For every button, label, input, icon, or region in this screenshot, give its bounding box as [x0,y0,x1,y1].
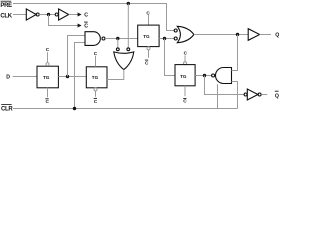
wire node M1 up to NAND U5 upper input [68,36,86,77]
wire CLR net up to NAND U5 lower input (crosses D wire, no dot) [75,43,86,109]
transmission gate TG2 [86,67,107,88]
bubble TG3 bottom control [147,47,150,50]
wire node Q down to U6 top input [232,35,238,71]
label C-bar (TG3 bottom control) [145,60,149,65]
label C-bar [84,22,88,30]
svg-text:TG: TG [143,34,150,39]
wire U7 output to Q label [260,34,271,36]
wire TG4 top control stub [184,55,186,61]
wire node S1 down to TG4 input [165,39,176,76]
wire U5 output to TG3 (node M2) [105,38,138,40]
bubble TG1 top control [46,63,49,66]
label C-bar (TG1 bottom control) [45,99,49,104]
svg-text:Q: Q [275,93,279,99]
wire TG2 bottom control stub [95,91,97,97]
wire U6 bottom input to CLR rail (crosses slave wire, no dot) [232,82,238,109]
svg-text:C: C [94,51,98,56]
wire TG4 bottom control stub [184,86,186,96]
inverter U2 (C-bar -> C), input bubble [55,9,68,20]
wire U2 output to C arrow [69,14,78,16]
label C-bar (TG2 bottom control) [94,98,98,103]
wire PRE rail down to U3 right input bubble [127,4,129,48]
junction node Q [236,33,239,36]
buffer U7 (Q output) [248,29,259,41]
OR gate U3 (vertical, preset gate, inputs bubbled) [114,48,134,70]
wire node CLKbar down to C-bar arrow [49,15,79,26]
NAND gate U6 (slave feedback, points left) [212,68,232,84]
wire TG2 top control stub [95,56,97,67]
svg-text:CLR: CLR [1,106,13,112]
wire PRE net: top rail to upper input of OR gate U4 [13,4,174,31]
label Qbar output [275,91,279,99]
svg-text:C: C [84,13,88,19]
inverter U8 (Qbar output, double bubble) [244,89,261,100]
svg-text:PRE: PRE [0,3,12,9]
svg-text:TG: TG [43,75,50,80]
wire node M2 down to OR-v U3 left input bubble [117,39,119,48]
net CLR input label [1,104,13,112]
wire CLR rail [13,108,238,110]
wire TG1 output to TG2 (master node M1) [58,76,86,78]
svg-text:Q: Q [275,32,279,38]
svg-text:TG: TG [92,75,99,80]
wire TG4 output to NAND U6 output bubble (node S2) [195,75,212,77]
wire TG1 top control stub [47,52,49,62]
wire TG3 output to OR U4 lower input (node S1) [159,38,174,40]
junction node M1 [66,75,69,78]
bubble TG2 bottom control [94,88,97,91]
transmission gate TG4 [175,65,195,86]
wire TG1 bottom control stub [47,88,49,97]
svg-text:C: C [183,99,187,104]
wire U1 output to U2 [39,14,55,16]
wire node S2 down/right to Qbar inverter U8 [205,76,245,95]
svg-text:C: C [46,47,50,52]
arrow C-bar [78,24,82,28]
OR gate U4 (horizontal, inputs bubbled) [174,26,194,42]
net PRE input label [0,1,12,9]
wire TG3 bottom control stub [148,50,150,58]
transmission gate TG3 [138,25,159,46]
wire CLR rail up into U6 body bottom (crosses slave wire, no dot) [217,84,219,108]
junction node M2 [116,37,119,40]
svg-text:CLK: CLK [0,13,12,19]
wire U3 output down/left to TG2 right side [107,70,124,80]
NAND gate U5 (master) [85,32,105,46]
svg-text:C: C [94,99,98,104]
transmission gate TG1 [37,66,58,88]
junction CLR to U5 [73,107,76,110]
wire U8 output to Qbar label [261,94,267,96]
wire D to TG1 [13,76,37,78]
svg-text:C: C [84,24,88,30]
arrow C [78,13,82,17]
svg-text:TG: TG [180,74,187,79]
junction PRE rail to OR-v gate [127,2,130,5]
junction node CLKbar [47,13,50,16]
inverter U1 (CLK -> C-bar) [26,9,39,20]
wire U4 output to Q buffer (node Q) [194,34,248,36]
junction node S1 [163,37,166,40]
label C-bar (TG4 bottom control) [183,99,187,104]
wire CLK to inverter U1 [13,14,26,16]
svg-text:D: D [6,75,10,81]
junction node S2 [203,74,206,77]
wire TG3 top control stub [148,15,150,25]
bubble TG4 top control [184,62,187,65]
